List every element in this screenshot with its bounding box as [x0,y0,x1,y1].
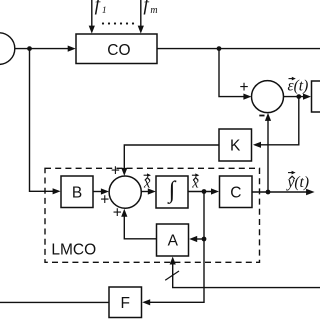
svg-text:m: m [150,5,157,16]
wire: F output to left edge [0,301,109,303]
box C [220,176,253,208]
box at right edge (cut off) [312,81,320,112]
svg-text:A: A [168,233,179,250]
svg-text:ε(t): ε(t) [288,78,309,95]
wire: CO output to right edge [157,48,320,50]
disturbance arrow fm [140,0,142,27]
svg-text:y(t): y(t) [286,174,310,191]
node: x-hat junction [202,189,207,194]
wire: B output to LMCO summer [93,191,102,193]
node: epsilon junction [296,94,301,99]
box F [109,287,142,318]
svg-text:∫: ∫ [167,178,177,205]
wire: C output to right edge arrow [252,191,307,193]
wire: epsilon down to K [256,97,299,145]
minus sign at epsilon summer bottom input [259,115,264,117]
LMCO dashed boundary [45,168,260,262]
ellipsis dots between f1 and fm [102,22,134,24]
wire: epsilon output to right box [284,96,305,98]
box K [219,129,252,161]
svg-text:+: + [100,192,109,209]
svg-text:F: F [120,295,129,312]
input circle (setpoint, cut at left edge) [0,33,15,65]
wire: summer to integrator [141,191,149,193]
wire: junction down to B input [30,49,54,192]
svg-text:1: 1 [102,6,107,16]
label x-hat after integrator [191,173,199,191]
node: input junction [27,46,32,51]
box B [61,176,93,208]
svg-text:B: B [72,184,82,201]
wire: integrator to C [188,191,212,193]
node: A feedback junction [202,237,207,242]
disturbance arrow f1 [91,0,93,27]
label epsilon(t) vector [288,77,309,95]
svg-text:LMCO: LMCO [51,242,96,259]
wire: K output to LMCO summer top [124,145,219,170]
wire: junction into A right side [192,238,204,240]
summer circle (epsilon) [252,81,284,113]
wire: y-hat up to epsilon summer (minus) [267,117,269,193]
box integrator [156,176,188,208]
wire: y(t) down into epsilon summer [219,49,245,97]
wire: external input up into A bottom [173,260,320,288]
svg-text:+: + [113,205,122,222]
wire: x-hat down to A and F [146,192,204,303]
box CO (control object) [76,34,157,64]
wire: A output to LMCO summer bottom [124,212,156,239]
node: y-hat junction [266,190,271,195]
svg-text:C: C [230,184,241,201]
box A [157,224,189,256]
svg-text:+: + [111,163,120,180]
svg-text:CO: CO [107,42,130,59]
summer circle (LMCO) [109,176,141,208]
label x-hat before integrator [143,173,151,191]
svg-text:K: K [230,138,241,155]
slash (vector bus mark) [165,271,179,280]
label y-hat(t) vector [286,171,310,191]
node: y(t) junction [217,46,222,51]
wire: input circle to CO [15,48,70,50]
svg-text:+: + [239,79,248,96]
